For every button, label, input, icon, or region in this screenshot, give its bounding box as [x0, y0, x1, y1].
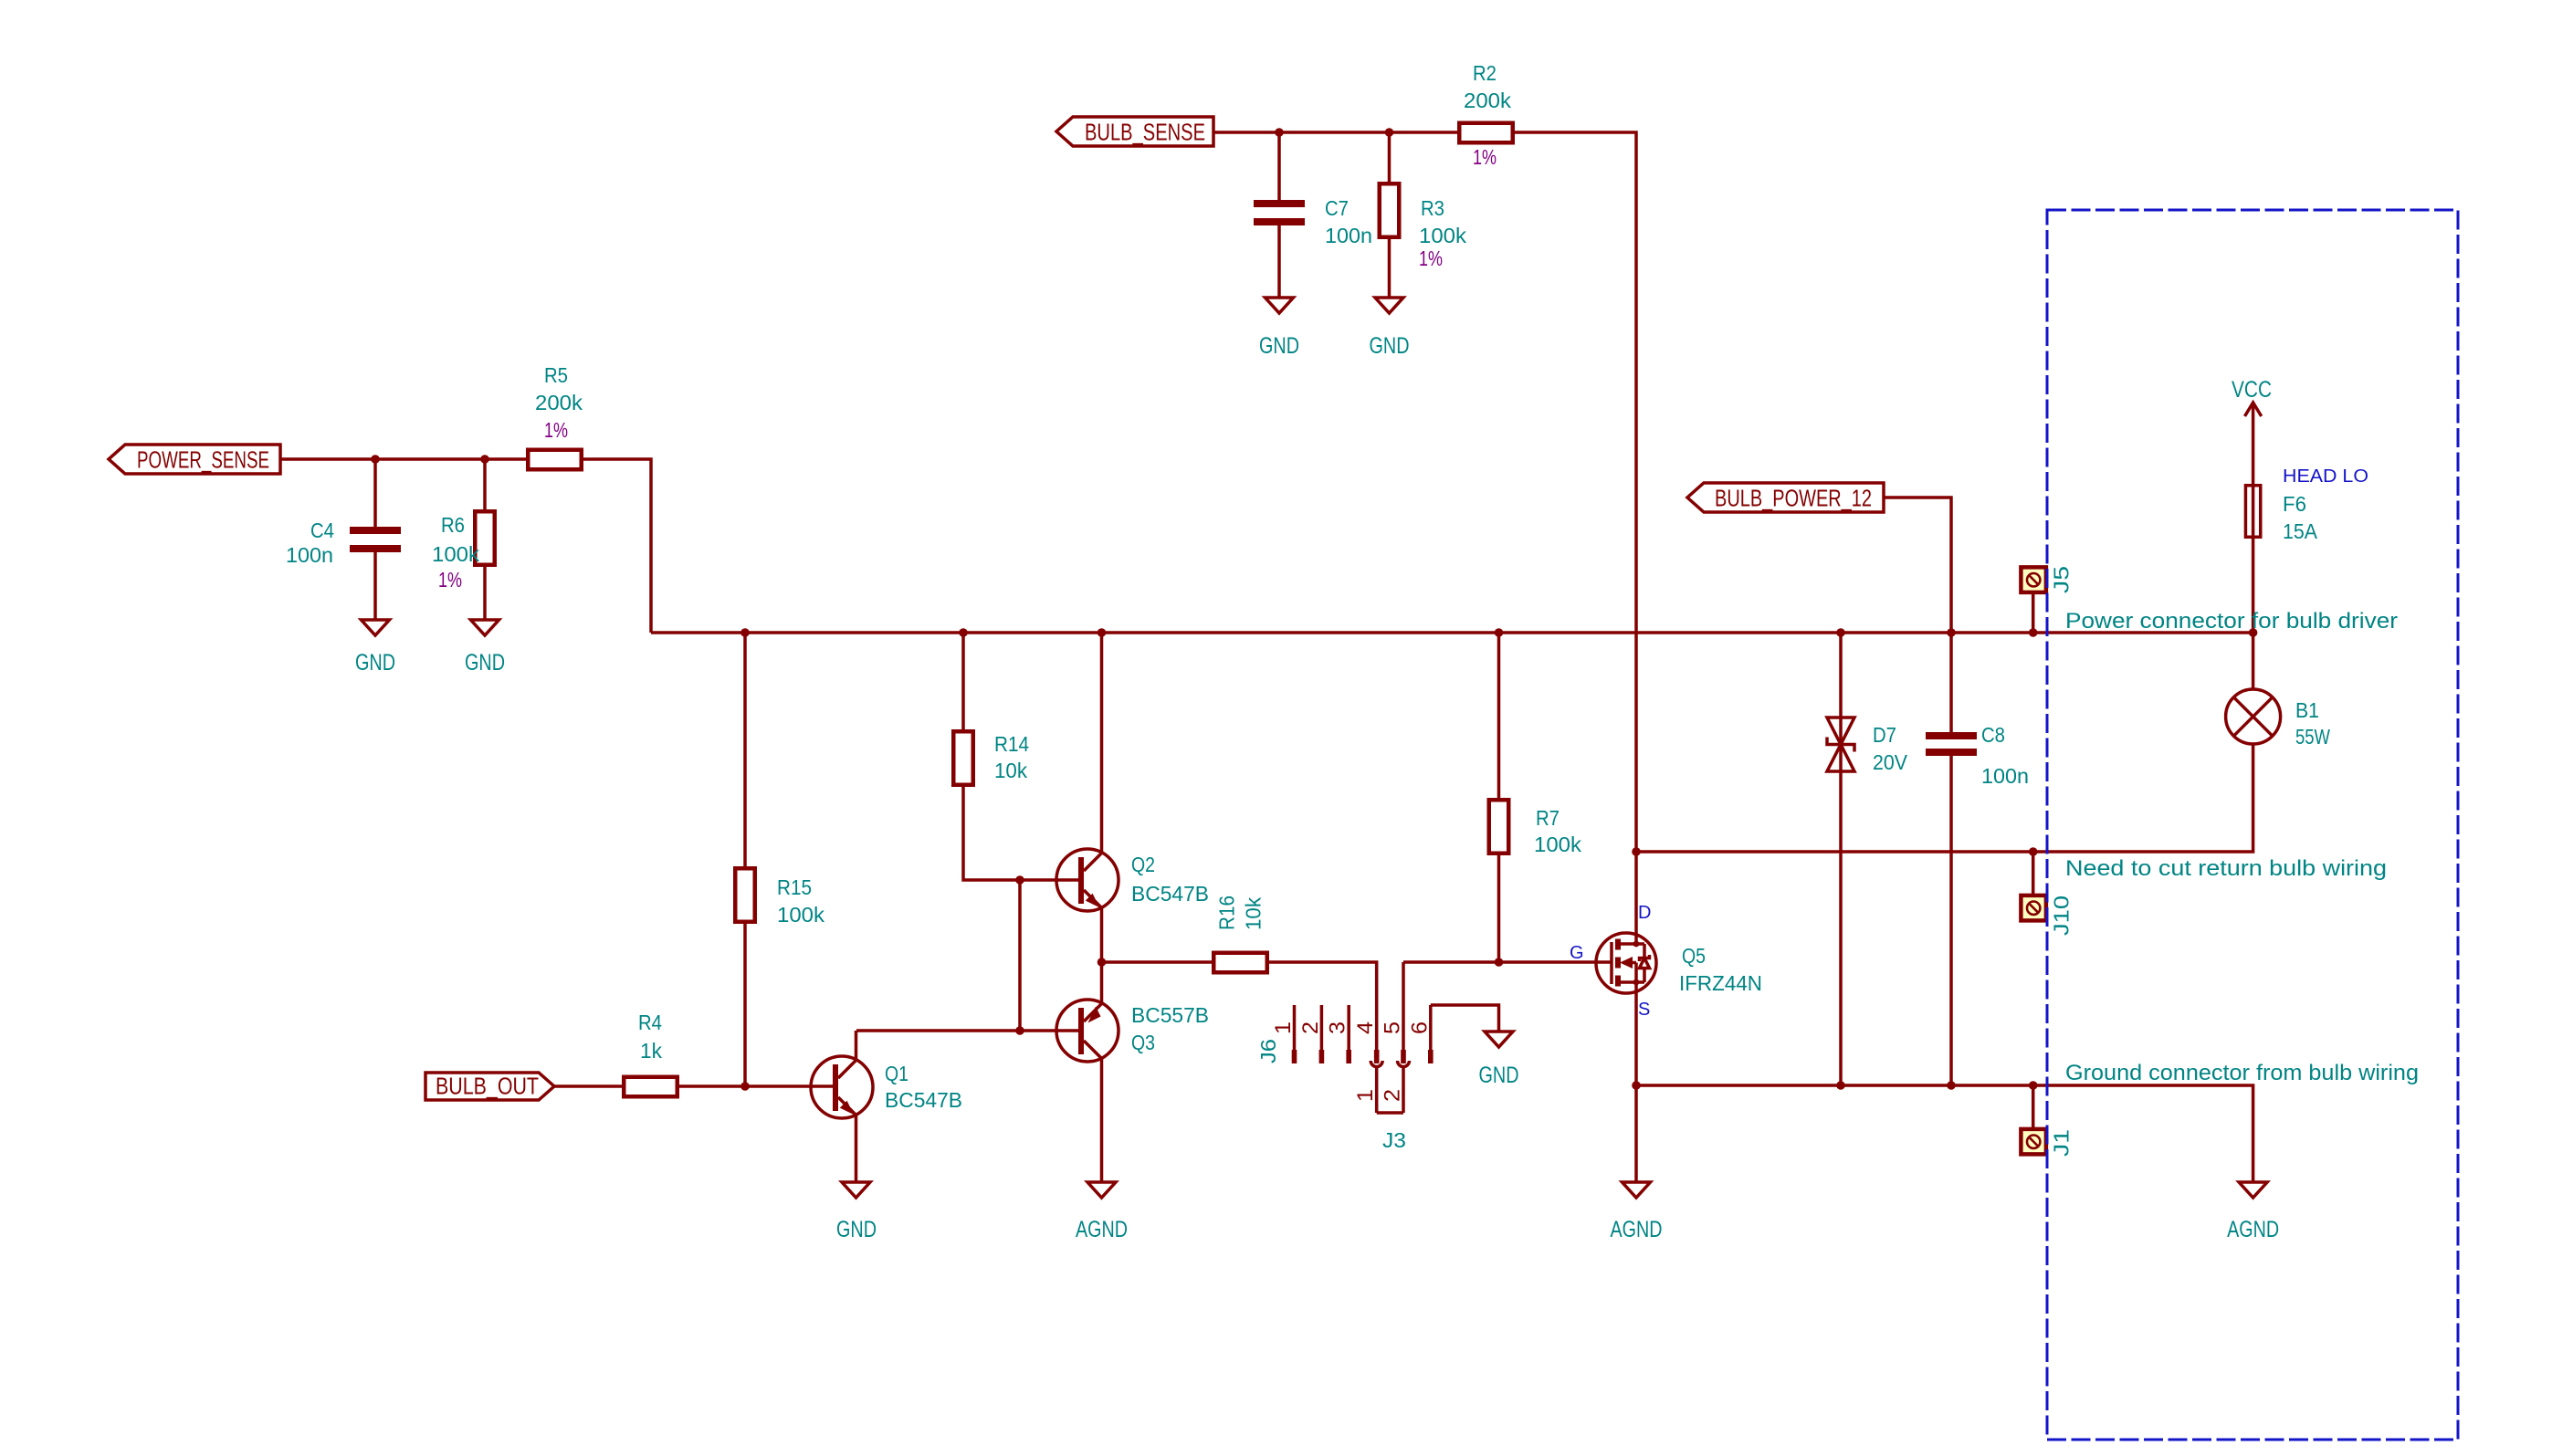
svg-text:F6: F6	[2283, 492, 2306, 516]
wire BULB_OUT to R4	[554, 1084, 622, 1088]
svg-text:R5: R5	[544, 363, 568, 387]
svg-text:VCC: VCC	[2232, 377, 2272, 403]
svg-text:100n: 100n	[1325, 224, 1372, 247]
wire R3 lower lead	[1388, 238, 1392, 298]
wire R2 to drain column	[1515, 132, 1636, 944]
junction C8 / ground run	[1947, 1081, 1956, 1090]
svg-text:S: S	[1638, 1000, 1650, 1020]
wire D7 upper lead	[1839, 633, 1843, 1085]
pin 3 of J6	[1326, 1005, 1351, 1063]
svg-text:GND: GND	[836, 1217, 877, 1242]
svg-text:BULB_SENSE: BULB_SENSE	[1085, 119, 1205, 146]
transistor Q2	[1056, 633, 1209, 962]
resistor R5	[528, 363, 583, 469]
svg-text:100k: 100k	[1534, 833, 1581, 856]
svg-text:C7: C7	[1325, 196, 1349, 220]
svg-text:R15: R15	[777, 875, 812, 899]
wire bus to B1	[2252, 633, 2255, 689]
svg-text:1: 1	[1353, 1089, 1378, 1102]
svg-text:J1: J1	[2050, 1129, 2074, 1157]
wire ground connector run	[1636, 1085, 2253, 1183]
junction ground run / J1	[2029, 1081, 2038, 1090]
wire R6 upper lead	[483, 459, 487, 509]
wire C7 lower lead	[1277, 225, 1281, 298]
wire R15 lower lead	[743, 923, 747, 1086]
resistor R6	[432, 511, 495, 592]
svg-text:200k: 200k	[535, 391, 583, 414]
svg-text:R14: R14	[994, 732, 1029, 756]
wire C4 upper lead	[373, 459, 377, 527]
svg-text:R2: R2	[1473, 61, 1497, 85]
svg-text:IFRZ44N: IFRZ44N	[1679, 971, 1762, 995]
wire R16 to J3 pin1	[1268, 962, 1377, 1005]
svg-text:55W: 55W	[2295, 725, 2331, 749]
ground symbol under R3	[1370, 298, 1410, 359]
junction bus/D7	[1836, 628, 1845, 637]
capacitor C7	[1254, 196, 1372, 247]
wire Q5 source down	[1634, 982, 1638, 1183]
svg-text:GND: GND	[465, 650, 505, 676]
svg-text:100k: 100k	[777, 903, 824, 927]
svg-text:3: 3	[1326, 1021, 1350, 1034]
wire R15 upper lead	[743, 633, 747, 866]
wire R7 upper lead	[1497, 633, 1501, 798]
junction R3 tap	[1385, 128, 1394, 137]
svg-text:100k: 100k	[1419, 224, 1466, 247]
svg-text:BC547B: BC547B	[885, 1088, 962, 1112]
svg-text:2: 2	[1381, 1089, 1405, 1102]
lamp B1	[2226, 689, 2331, 749]
wire R14 to Q2 base	[963, 786, 1078, 880]
resistor R2	[1459, 61, 1513, 169]
resistor R7	[1489, 800, 1581, 856]
wire J1 lead	[2032, 1085, 2035, 1127]
wire R14 upper lead	[961, 633, 965, 729]
svg-text:BC557B: BC557B	[1131, 1003, 1209, 1027]
svg-text:Ground connector from bulb wir: Ground connector from bulb wiring	[2065, 1062, 2419, 1085]
wire C7 upper lead	[1277, 132, 1281, 200]
ground symbol under C7	[1259, 298, 1299, 359]
svg-text:B1: B1	[2295, 698, 2319, 722]
svg-text:100n: 100n	[286, 543, 333, 567]
wire J6 pin6 to GND	[1431, 1005, 1499, 1032]
junction source / ground run	[1632, 1081, 1641, 1090]
resistor R4	[624, 1011, 677, 1096]
svg-text:100k: 100k	[432, 542, 479, 566]
capacitor C4	[286, 519, 401, 567]
svg-text:1%: 1%	[1419, 246, 1443, 270]
svg-text:Need to cut return bulb wiring: Need to cut return bulb wiring	[2065, 857, 2387, 881]
wire gate feed to J3 pin2	[1402, 962, 1405, 1005]
wire C8 upper lead	[1949, 633, 1953, 732]
pin 2 of J6	[1298, 1005, 1324, 1063]
wire R6 lower lead	[483, 566, 487, 620]
ground symbol under C4	[355, 620, 395, 676]
wire R7 lower lead	[1497, 854, 1501, 962]
wire main supply bus	[651, 631, 2253, 634]
svg-text:R6: R6	[441, 513, 465, 537]
svg-text:HEAD LO: HEAD LO	[2283, 466, 2368, 487]
wire BULB_POWER_12 to C8 column	[1884, 498, 1951, 633]
svg-text:10k: 10k	[1242, 897, 1265, 930]
ground symbol under Q1	[836, 1182, 877, 1242]
wire J3 body base	[1377, 1111, 1403, 1115]
svg-text:AGND: AGND	[1076, 1217, 1128, 1242]
pin 2 of J3	[1381, 1061, 1410, 1113]
wire return bulb run	[1636, 744, 2253, 852]
svg-text:C4: C4	[310, 519, 334, 542]
pin 6 of J6	[1407, 1005, 1433, 1063]
capacitor C8	[1926, 723, 2029, 788]
junction bus/R7	[1495, 628, 1504, 637]
junction bus/R15	[740, 628, 750, 637]
svg-text:R3: R3	[1421, 196, 1444, 220]
wire C8 lower lead	[1949, 756, 1953, 1085]
junction R15/R4/Q1	[740, 1082, 750, 1091]
svg-text:AGND: AGND	[1611, 1217, 1663, 1242]
svg-text:R4: R4	[638, 1011, 662, 1034]
junction return run / J10	[2029, 847, 2038, 856]
transistor Q1	[811, 1031, 962, 1183]
wire BULB_SENSE to R2	[1213, 131, 1457, 134]
wire R3 upper lead	[1388, 132, 1392, 182]
ground symbol under R6	[465, 620, 505, 676]
diode D7 TVS	[1827, 718, 1907, 774]
svg-text:200k: 200k	[1464, 89, 1511, 112]
svg-text:G: G	[1570, 943, 1584, 963]
wire J5 lead	[2032, 594, 2035, 633]
junction bus/F6/B1	[2249, 628, 2258, 637]
svg-text:Q2: Q2	[1131, 853, 1155, 876]
connector J3	[1382, 1128, 1406, 1152]
svg-text:C8: C8	[1981, 723, 2005, 747]
svg-text:100n: 100n	[1981, 764, 2029, 788]
junction R6 tap	[480, 455, 489, 464]
wire R5 to bus	[583, 459, 651, 633]
svg-text:1%: 1%	[544, 418, 568, 442]
svg-text:J10: J10	[2050, 896, 2074, 936]
transistor Q3	[1056, 962, 1209, 1183]
svg-text:20V: 20V	[1873, 750, 1907, 774]
svg-text:Q3: Q3	[1131, 1031, 1155, 1054]
junction R7/gate wire	[1495, 958, 1504, 967]
svg-text:Q5: Q5	[1682, 944, 1706, 968]
svg-text:6: 6	[1407, 1021, 1432, 1034]
svg-text:J5: J5	[2050, 566, 2074, 593]
svg-text:5: 5	[1381, 1021, 1405, 1034]
svg-text:2: 2	[1298, 1021, 1323, 1034]
wire base link vertical	[1018, 880, 1022, 1031]
fuse F6	[2245, 484, 2317, 543]
svg-text:J3: J3	[1382, 1128, 1406, 1152]
pin 4 of J6	[1353, 1005, 1379, 1063]
hierarchical label BULB_SENSE	[1056, 117, 1213, 146]
junction bus/J5	[2029, 628, 2038, 637]
ground symbol AGND right	[2227, 1182, 2279, 1242]
resistor R16	[1213, 896, 1267, 972]
connector J1 screw terminal	[2021, 1129, 2073, 1157]
ground symbol near J6	[1479, 1032, 1519, 1088]
connector J6	[1256, 1039, 1280, 1063]
pin 1 of J3	[1353, 1061, 1382, 1113]
hierarchical label BULB_POWER_12	[1687, 483, 1884, 512]
svg-text:D: D	[1638, 903, 1651, 923]
pin 1 of J6	[1271, 1005, 1297, 1063]
svg-text:R16: R16	[1215, 896, 1239, 930]
svg-text:J6: J6	[1256, 1039, 1280, 1063]
junction Q3 base link	[1015, 1026, 1024, 1035]
svg-text:D7: D7	[1873, 723, 1896, 747]
wire R4 to Q1 base	[679, 1084, 833, 1088]
svg-text:BC547B: BC547B	[1131, 882, 1209, 906]
svg-text:1%: 1%	[438, 568, 462, 592]
resistor R14	[953, 731, 1029, 785]
svg-text:4: 4	[1353, 1021, 1378, 1034]
resistor R3	[1380, 183, 1466, 270]
junction D7 / ground run	[1836, 1081, 1845, 1090]
svg-text:AGND: AGND	[2227, 1217, 2279, 1242]
junction drain / return wire	[1632, 847, 1641, 856]
svg-text:GND: GND	[1370, 333, 1410, 359]
junction bus/Q2 collector	[1097, 628, 1107, 637]
svg-text:Power connector for bulb drive: Power connector for bulb driver	[2065, 610, 2398, 634]
junction C7 tap	[1275, 128, 1284, 137]
power symbol VCC	[2232, 377, 2272, 484]
wire C4 lower lead	[373, 552, 377, 620]
svg-text:Q1: Q1	[885, 1062, 908, 1085]
pin 5 of J6	[1381, 1005, 1406, 1063]
svg-text:GND: GND	[1479, 1063, 1519, 1088]
svg-text:R7: R7	[1536, 806, 1560, 830]
resistor R15	[735, 868, 824, 927]
ground symbol AGND under Q3	[1076, 1182, 1128, 1242]
svg-text:GND: GND	[355, 650, 395, 676]
svg-text:1: 1	[1271, 1021, 1296, 1034]
junction Q2 emitter / Q3 emitter / R16	[1097, 958, 1107, 967]
svg-text:BULB_POWER_12: BULB_POWER_12	[1715, 485, 1872, 512]
hierarchical label POWER_SENSE	[109, 445, 280, 474]
wire POWER_SENSE to R5	[280, 457, 527, 461]
svg-text:1k: 1k	[640, 1039, 662, 1063]
hierarchical label BULB_OUT	[425, 1073, 554, 1101]
wire F6 to bus	[2252, 539, 2255, 633]
ground symbol AGND under Q5	[1611, 1182, 1663, 1242]
junction C4 tap	[371, 455, 380, 464]
junction bus/R14	[959, 628, 968, 637]
svg-text:POWER_SENSE: POWER_SENSE	[137, 446, 269, 474]
junction bus/C8	[1947, 628, 1956, 637]
connector J5 screw terminal	[2021, 566, 2073, 593]
wire J3 pin2 to mosfet gate	[1403, 960, 1611, 964]
transistor Q5 mosfet	[1570, 903, 1762, 1020]
wire J10 lead	[2032, 852, 2035, 894]
svg-text:1%: 1%	[1473, 145, 1497, 169]
sheet outline dashed box	[2047, 210, 2458, 1440]
svg-text:15A: 15A	[2283, 519, 2317, 543]
connector J10 screw terminal	[2021, 896, 2073, 936]
svg-text:BULB_OUT: BULB_OUT	[436, 1073, 539, 1100]
svg-text:10k: 10k	[994, 759, 1027, 782]
wire Q2/Q3 emitters to R16	[1102, 960, 1213, 964]
junction base link	[1015, 875, 1024, 885]
svg-text:GND: GND	[1259, 333, 1299, 359]
wire Q1 collector to Q3 base	[856, 1029, 1078, 1032]
